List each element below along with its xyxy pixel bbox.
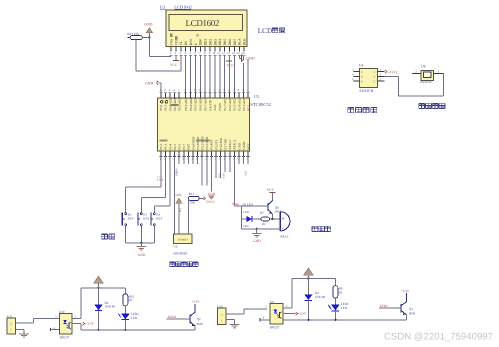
svg-text:5: 5 <box>189 52 191 55</box>
ground below U11 <box>19 333 29 335</box>
top rail left circuit <box>81 287 125 289</box>
svg-text:10: 10 <box>212 52 215 55</box>
svg-text:K K K: K K K <box>157 178 164 181</box>
svg-text:P1.7: P1.7 <box>182 144 186 150</box>
svg-text:P2.2: P2.2 <box>247 105 251 111</box>
optocoupler U10 body <box>60 313 73 334</box>
transistor Q4 9050 <box>189 315 191 324</box>
resistor R7 1K <box>252 218 261 220</box>
svg-text:RXD2: RXD2 <box>168 315 177 319</box>
wire U11 pin1 to ground <box>15 329 24 331</box>
wire TXD2 net to Q3 base <box>379 307 401 309</box>
svg-text:P3.4/T0: P3.4/T0 <box>210 139 214 149</box>
node Q6 emitter junction <box>271 218 273 220</box>
switch pin 2 stub <box>353 71 359 73</box>
svg-text:6N137: 6N137 <box>270 325 280 329</box>
svg-text:P0.3/AD3: P0.3/AD3 <box>184 98 188 111</box>
LCD1602 U3 body <box>166 10 247 46</box>
svg-text:U5: U5 <box>254 94 259 99</box>
svg-text:SWITCH: SWITCH <box>359 89 373 93</box>
svg-text:3: 3 <box>169 89 171 92</box>
svg-text:GND: GND <box>145 81 153 85</box>
node D4 bottom junction <box>307 319 309 321</box>
bottom rail right circuit <box>260 319 406 321</box>
svg-text:DS18B20: DS18B20 <box>178 238 189 241</box>
wire buttons common rail <box>126 242 155 244</box>
wire U12 pin1 to ground <box>226 319 235 321</box>
label fengmingqi (buzzer) <box>312 226 318 231</box>
svg-text:LCD: LCD <box>258 27 272 35</box>
wire LCD pin1 VSS to left rail <box>170 55 172 56</box>
svg-text:GND1: GND1 <box>242 141 246 150</box>
+5VCC port at switch pin1 <box>385 70 387 73</box>
svg-text:DB7: DB7 <box>233 39 237 46</box>
svg-text:STC89C52: STC89C52 <box>250 102 271 107</box>
wire LCD pin3 VL down to pot rail <box>180 55 182 71</box>
unconnected MCU stub wires group2 <box>201 156 203 185</box>
svg-text:LCD1602: LCD1602 <box>186 18 220 28</box>
unconnected MCU stub wires group1 <box>178 156 180 164</box>
svg-text:R11: R11 <box>189 192 195 196</box>
wire junction to LCD pin1 <box>148 38 150 57</box>
svg-text:U8: U8 <box>421 64 426 68</box>
svg-text:2: 2 <box>164 89 166 92</box>
svg-text:RXD: RXD <box>223 173 226 179</box>
pushbutton K4 <box>153 212 155 213</box>
wire buzzer minus rail <box>240 219 242 229</box>
svg-text:1K: 1K <box>339 291 344 295</box>
svg-text:P3.5/T1: P3.5/T1 <box>214 139 218 149</box>
node D2 bottom junction <box>97 329 99 331</box>
svg-text:U3: U3 <box>160 4 166 9</box>
svg-text:14: 14 <box>232 52 235 55</box>
svg-text:P3.2/INT0: P3.2/INT0 <box>201 136 205 150</box>
svg-text:P0.6/AD6: P0.6/AD6 <box>199 98 203 111</box>
svg-text:U4: U4 <box>359 64 364 68</box>
socket pin 1 stub <box>434 72 444 74</box>
svg-text:VSS: VSS <box>169 39 173 45</box>
wire U11 pin2 to U10 pin5 <box>15 322 33 324</box>
svg-text:TXD2: TXD2 <box>379 304 388 308</box>
svg-text:P1.0: P1.0 <box>159 105 163 111</box>
power socket U8 body <box>421 70 434 80</box>
connector U11 body <box>7 318 15 334</box>
svg-text:P0.5/AD5: P0.5/AD5 <box>194 98 198 111</box>
svg-text:P3.0/RXD: P3.0/RXD <box>191 136 195 150</box>
VCC port on LCD pin2 <box>175 55 177 60</box>
svg-text:12: 12 <box>222 52 225 55</box>
GND port right of LCD pin15 <box>238 55 240 58</box>
svg-text:1N4148: 1N4148 <box>315 295 326 299</box>
optocoupler U9 body <box>270 303 283 324</box>
svg-text:BLA: BLA <box>238 38 242 45</box>
svg-text:+3.3V: +3.3V <box>191 300 200 304</box>
node LED2 bottom junction <box>124 329 126 331</box>
svg-text:P0.1/AD1: P0.1/AD1 <box>173 98 177 111</box>
wire VL rail <box>136 70 181 72</box>
svg-text:18B20: 18B20 <box>176 168 179 176</box>
svg-text:DQ: DQ <box>179 208 182 212</box>
svg-text:9050: 9050 <box>197 322 204 326</box>
svg-text:P1.2: P1.2 <box>159 144 163 150</box>
+3.3V port at U10 pin1 <box>72 323 81 325</box>
svg-text:R7: R7 <box>260 211 264 215</box>
switch pin 3 stub <box>377 75 384 77</box>
node buzzer gnd junction <box>256 228 258 230</box>
svg-text:D5 LED: D5 LED <box>243 202 254 206</box>
label anjian (buttons) <box>102 234 108 239</box>
wire U9 pin2 up to top rail <box>283 307 292 309</box>
bottom rail left circuit <box>81 329 195 331</box>
svg-text:XTAL2: XTAL2 <box>228 140 232 150</box>
svg-text:5: 5 <box>265 305 267 309</box>
wire MCU pin to button K3 <box>164 156 166 197</box>
svg-text:GND: GND <box>174 193 182 197</box>
unconnected MCU stub wires group4 <box>238 156 240 164</box>
wire Beep net MCU to Q6 base <box>233 156 235 206</box>
svg-text:2: 2 <box>175 52 177 55</box>
LED2 <box>121 314 129 320</box>
svg-text:P3.6/WR: P3.6/WR <box>219 137 223 149</box>
svg-text:1: 1 <box>170 52 172 55</box>
top rail right circuit <box>292 277 336 279</box>
svg-text:DB2: DB2 <box>208 39 212 46</box>
GND port below MCU pin <box>210 156 212 192</box>
svg-text:DB3: DB3 <box>213 39 217 46</box>
svg-text:P0.4/AD4: P0.4/AD4 <box>189 98 193 111</box>
svg-text:7: 7 <box>199 52 201 55</box>
svg-text:2: 2 <box>75 314 77 318</box>
svg-text:P2.3/A11: P2.3/A11 <box>242 98 246 110</box>
resistor R10 1K <box>124 288 126 294</box>
label dianyuan zuozi (power socket) <box>419 103 425 108</box>
transistor Q6 9012 <box>267 203 269 211</box>
svg-text:U6: U6 <box>173 244 177 248</box>
switch pin 1 stub <box>377 71 384 73</box>
svg-text:EA/VPP: EA/VPP <box>208 100 212 111</box>
svg-text:VCC: VCC <box>267 188 275 192</box>
svg-text:GND: GND <box>253 239 261 243</box>
switch pin 5 stub <box>377 80 384 82</box>
buzzer BELL <box>279 212 281 231</box>
switch U4 body <box>359 68 377 87</box>
wire MCU pin to button K4 <box>169 156 171 206</box>
ground below buttons <box>140 243 142 247</box>
wire MCU pin to button K2 <box>160 156 162 187</box>
svg-text:P0.2/AD2: P0.2/AD2 <box>178 98 182 111</box>
LCD bottom pin stubs with pin numbers 1-16 <box>170 46 172 51</box>
svg-text:P1.6: P1.6 <box>178 144 182 150</box>
svg-text:+: + <box>282 217 285 222</box>
DS18B20 U6 body <box>173 234 191 244</box>
wire U10 pin2 up to top rail <box>72 317 81 319</box>
svg-text:P3.1/TXD: P3.1/TXD <box>196 136 200 150</box>
svg-text:2: 2 <box>286 304 288 308</box>
connector U12 body <box>218 308 226 325</box>
svg-text:VCC: VCC <box>227 63 235 67</box>
svg-text:DB4: DB4 <box>218 39 222 46</box>
svg-text:BELL: BELL <box>280 234 288 238</box>
svg-text:15: 15 <box>237 52 240 55</box>
wire U10 pin1 to bottom rail <box>80 324 82 330</box>
svg-text:P0.0/AD0: P0.0/AD0 <box>168 98 172 111</box>
wire RXD2 net to Q4 base <box>167 318 190 320</box>
svg-text:11: 11 <box>217 52 220 55</box>
diode D2 1N4148 <box>98 288 100 305</box>
diode D4 1N4148 <box>307 278 309 294</box>
svg-text:DB0: DB0 <box>199 39 203 46</box>
node button rail junction <box>140 242 142 244</box>
node RP1/GND junction <box>148 36 150 38</box>
svg-text:-: - <box>282 226 284 232</box>
svg-text:VL: VL <box>179 41 183 46</box>
optocoupler U9 pin4 tick <box>259 318 261 321</box>
wire DS18B20 gnd pin <box>178 203 180 234</box>
svg-text:KEY: KEY <box>156 217 163 221</box>
svg-text:BLK: BLK <box>243 38 247 45</box>
svg-text:P1.1: P1.1 <box>164 105 168 111</box>
svg-text:XTAL1: XTAL1 <box>233 140 237 150</box>
svg-text:R/W: R/W <box>189 38 193 45</box>
MCU bottom pin stubs and numbers <box>160 151 162 156</box>
label zisuo kaiguan (self-lock switch) <box>348 107 354 112</box>
svg-text:10K: 10K <box>189 200 195 204</box>
svg-text:P2.6/A14: P2.6/A14 <box>228 98 232 110</box>
svg-text:+5VCC: +5VCC <box>388 70 399 74</box>
svg-text:13: 13 <box>227 52 230 55</box>
svg-text:E: E <box>194 43 198 45</box>
resistor R9 1K <box>334 278 336 285</box>
svg-text:GND: GND <box>246 56 254 60</box>
svg-text:P2.4/A12: P2.4/A12 <box>237 98 241 110</box>
svg-text:+3.3V: +3.3V <box>298 312 307 316</box>
power arrow above left rail <box>98 283 100 288</box>
svg-text:1N4148: 1N4148 <box>105 305 116 309</box>
svg-text:9: 9 <box>209 52 211 55</box>
pushbutton K2 <box>125 212 127 213</box>
svg-text:LED: LED <box>131 316 138 320</box>
wire U12 pin2 to U9 pin5 <box>226 313 244 315</box>
svg-text:VCC: VCC <box>170 63 178 67</box>
svg-text:P1.5: P1.5 <box>173 144 177 150</box>
label wendu chuanganqi (temperature sensor) <box>170 262 175 267</box>
svg-text:P1.4: P1.4 <box>168 144 172 150</box>
MCU serial stub wires with TXD RXD labels <box>215 156 217 178</box>
svg-text:TXD: TXD <box>218 173 221 178</box>
svg-text:DS18B20: DS18B20 <box>173 251 187 255</box>
svg-text:POWER: POWER <box>420 80 432 84</box>
wire RP1 wiper down to VL rail <box>135 40 137 72</box>
svg-text:8: 8 <box>238 89 240 92</box>
svg-text:Q4: Q4 <box>197 317 201 321</box>
wire to buzzer plus <box>273 218 281 220</box>
svg-text:8: 8 <box>204 52 206 55</box>
svg-text:DB5: DB5 <box>223 39 227 46</box>
svg-text:P3.7/RD: P3.7/RD <box>224 138 228 150</box>
svg-text:KEY: KEY <box>128 217 135 221</box>
bus wires LCD pins 4-14 down to MCU <box>185 55 187 98</box>
svg-text:P1.3: P1.3 <box>164 144 168 150</box>
MCU top pin stubs and numbers <box>160 93 162 98</box>
svg-text:4: 4 <box>173 89 175 92</box>
svg-text:VCC: VCC <box>247 143 251 149</box>
svg-text:DB1: DB1 <box>204 39 208 46</box>
svg-text:P3.3/INT1: P3.3/INT1 <box>205 136 209 150</box>
svg-text:GND: GND <box>138 253 146 257</box>
svg-text:P2.7/A15: P2.7/A15 <box>223 98 227 110</box>
svg-text:3: 3 <box>180 52 182 55</box>
wire R11 to DS18B20 VDD <box>187 198 189 233</box>
unconnected MCU stub wires group3 <box>224 156 226 172</box>
svg-text:DB6: DB6 <box>228 39 232 46</box>
wire MCU pin to DS18B20 DQ <box>174 156 176 234</box>
short net stubs above MCU right pins <box>243 63 245 98</box>
svg-text:LED: LED <box>243 224 249 228</box>
svg-text:+3.3V: +3.3V <box>85 322 94 326</box>
node LED3 bottom junction <box>334 319 336 321</box>
svg-text:ALE: ALE <box>213 104 217 110</box>
svg-text:1K: 1K <box>129 298 134 302</box>
svg-text:1K: 1K <box>262 222 267 226</box>
svg-text:5: 5 <box>178 89 180 92</box>
VCC port on LCD pin13 wire <box>226 60 232 62</box>
svg-text:PSEN: PSEN <box>218 102 222 110</box>
pushbutton K3 <box>140 212 142 213</box>
svg-text:LED: LED <box>243 210 249 214</box>
optocoupler U10 pin4 stub <box>50 328 52 331</box>
wire Q6 emitter down <box>272 214 274 219</box>
svg-text:5VCC: 5VCC <box>206 200 215 204</box>
socket pin 2 stub <box>412 72 421 74</box>
ground below buzzer <box>256 229 258 234</box>
svg-text:LCD1602: LCD1602 <box>174 4 192 9</box>
switch pin 4 stub <box>353 75 359 77</box>
+5VCC port at R11 <box>199 197 203 199</box>
ground below U12 <box>230 323 240 325</box>
svg-text:GND: GND <box>144 23 152 27</box>
svg-text:Beep: Beep <box>232 202 239 206</box>
svg-text:LED: LED <box>341 306 348 310</box>
switch pin 6 stub <box>353 80 359 82</box>
LED3 <box>331 305 339 311</box>
svg-text:CSDN @2201_75940997: CSDN @2201_75940997 <box>384 332 493 343</box>
svg-text:6N137: 6N137 <box>60 336 70 340</box>
svg-text:6: 6 <box>194 52 196 55</box>
svg-text:4: 4 <box>184 52 186 55</box>
svg-text:ALE: ALE <box>244 171 247 176</box>
svg-text:4: 4 <box>263 316 265 320</box>
svg-text:RST: RST <box>187 144 191 150</box>
svg-text:P0.7/AD7: P0.7/AD7 <box>203 98 207 111</box>
svg-text:16: 16 <box>242 52 245 55</box>
node rail/D2 junction <box>97 287 99 289</box>
svg-text:KEY: KEY <box>143 217 150 221</box>
svg-text:+3.3V: +3.3V <box>401 289 410 293</box>
svg-text:RS: RS <box>184 41 188 45</box>
svg-text:P2.5/A13: P2.5/A13 <box>233 98 237 110</box>
wire switch pin3 to power socket <box>385 75 399 77</box>
node rail/D4 junction <box>307 277 309 279</box>
svg-text:GND: GND <box>237 142 241 149</box>
transistor Q3 9050 <box>400 304 402 312</box>
svg-text:9050: 9050 <box>409 312 416 316</box>
svg-text:Q3: Q3 <box>409 307 413 311</box>
power arrow above right rail <box>307 275 309 278</box>
+3.3V port at U9 pin1 <box>283 313 295 315</box>
